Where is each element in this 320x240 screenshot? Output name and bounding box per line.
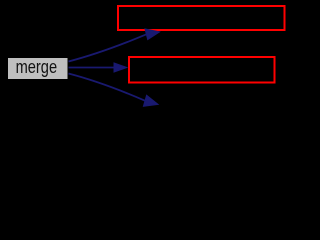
edge merge->top <box>69 29 160 62</box>
node middle (truncated, red border) <box>129 57 275 83</box>
edge merge->middle <box>69 63 127 72</box>
edge merge->bottom (hidden node) <box>69 74 159 107</box>
node merge <box>8 57 69 80</box>
node top (truncated, red border) <box>118 6 285 30</box>
call-graph canvas <box>0 0 289 139</box>
svg-text:merge: merge <box>16 57 58 77</box>
